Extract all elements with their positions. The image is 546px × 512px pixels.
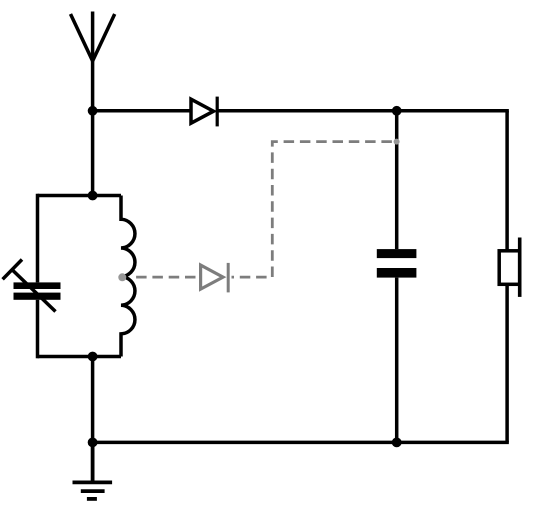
alternate diode D2 (gray) <box>201 263 229 293</box>
wire tank top <box>38 194 122 198</box>
wire tank left upper <box>36 194 40 283</box>
wire dashed tap to alt diode <box>136 276 199 279</box>
node capacitor-top junction <box>392 106 402 116</box>
diode D1 <box>191 97 217 127</box>
wire dashed alt diode to capacitor node <box>232 142 394 278</box>
inductor L1 <box>121 196 135 357</box>
wire right vertical upper <box>505 111 509 251</box>
antenna <box>71 12 115 62</box>
variable capacitor C1 trimmer arrow <box>3 260 56 312</box>
earphone LS1 <box>499 238 520 297</box>
wire top left to diode <box>93 109 191 113</box>
wire capacitor branch upper <box>395 111 399 249</box>
node bottom-capacitor junction <box>392 438 402 448</box>
node alt connection (gray) <box>394 139 400 145</box>
wire antenna to tank top <box>91 61 95 196</box>
capacitor C2 plates <box>377 249 417 258</box>
ground <box>73 442 113 499</box>
wire diode to top right <box>217 109 509 113</box>
node tank-top junction <box>88 191 98 201</box>
wire bottom <box>93 441 509 445</box>
wire capacitor branch lower <box>395 278 399 443</box>
variable capacitor C1 plates <box>14 282 61 289</box>
wire tank left lower <box>36 300 40 359</box>
node top-left junction <box>88 106 98 116</box>
wire right vertical lower <box>505 284 509 442</box>
node tank-bottom junction <box>88 352 98 362</box>
wire tank bottom <box>38 355 122 359</box>
wire left vertical lower <box>91 357 95 443</box>
node bottom-left junction <box>88 438 98 448</box>
node coil tap (gray) <box>118 273 126 281</box>
